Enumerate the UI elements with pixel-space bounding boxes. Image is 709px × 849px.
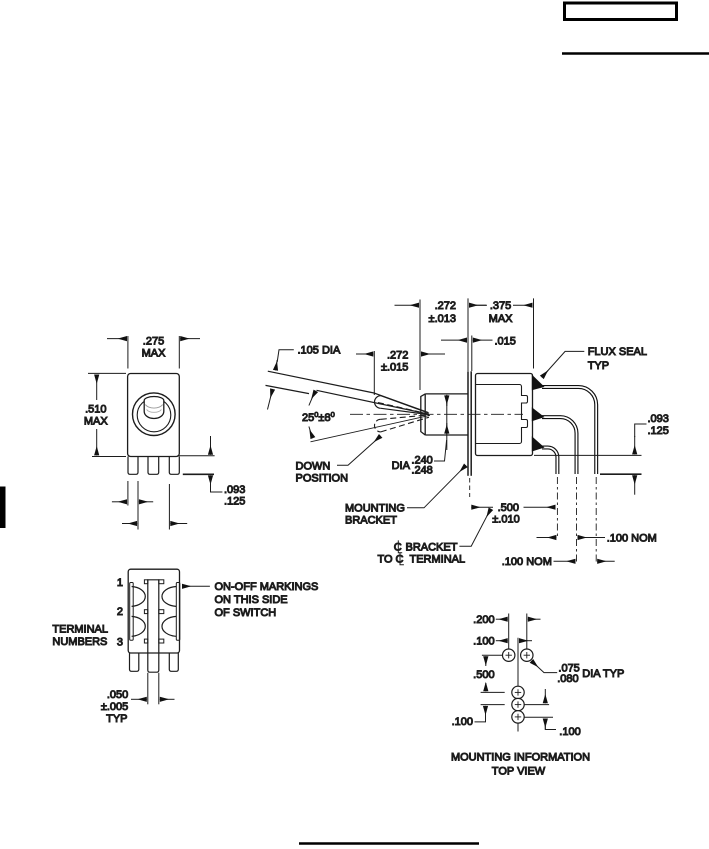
svg-text:TO: TO [378, 554, 394, 566]
down position bat cap (dashed) [374, 419, 380, 432]
svg-text:.375: .375 [490, 300, 511, 312]
svg-text:DIA: DIA [392, 460, 411, 472]
title block rectangle (empty, top right) [565, 3, 677, 20]
short bat edges [381, 396, 429, 414]
svg-text:.050: .050 [107, 689, 128, 701]
svg-text:±.015: ±.015 [381, 361, 408, 373]
mounting hole C [512, 686, 524, 698]
svg-text:ON THIS SIDE: ON THIS SIDE [215, 594, 288, 606]
svg-text:TOP VIEW: TOP VIEW [492, 766, 546, 778]
terminal row 2 tabs [144, 610, 147, 614]
footer rule (bottom center) [299, 842, 479, 845]
svg-text:.100: .100 [473, 636, 494, 648]
dim .510 MAX extension lines [88, 372, 126, 374]
svg-text:.093: .093 [224, 484, 245, 496]
bushing (side view) [421, 394, 425, 435]
front view right: body bottom extension [177, 455, 214, 457]
dim .050 extension lines [147, 673, 149, 705]
mounting hole A [503, 649, 515, 661]
header rule (top right) [562, 52, 709, 55]
svg-text:OF SWITCH: OF SWITCH [215, 607, 277, 619]
binding mark (left edge black bar) [0, 487, 6, 529]
svg-text:1: 1 [117, 577, 123, 589]
label ON-OFF MARKINGS with leader [182, 585, 210, 587]
svg-text:2: 2 [117, 606, 123, 618]
dim .500 extension lines [482, 654, 502, 656]
dim .100 (bottom right D-E) extension lines [524, 704, 549, 706]
svg-text:.100 NOM: .100 NOM [502, 556, 552, 568]
dim .272 +-.015 arrows [356, 353, 373, 355]
wire bottom extension line (right) [600, 473, 642, 475]
mounting hole E [512, 711, 524, 723]
hole A extension line [508, 614, 510, 651]
terminal leg 1 (front view) [128, 457, 138, 475]
svg-text:.272: .272 [387, 349, 408, 361]
leg spacing arrows (lower pair) [122, 523, 137, 525]
rear leg 3 [169, 653, 178, 671]
body bottom extension line (right) [534, 454, 642, 456]
right side wall strip [176, 583, 180, 641]
svg-text:.080: .080 [557, 673, 578, 685]
dim .100 (bottom left C-D) extension line [481, 704, 505, 706]
svg-text:BRACKET: BRACKET [406, 542, 458, 554]
switch body front outline [128, 374, 180, 457]
contact dome top-right [162, 587, 176, 607]
svg-text:MAX: MAX [142, 348, 167, 360]
svg-text:±.005: ±.005 [101, 701, 128, 713]
central actuator strip [148, 580, 159, 672]
svg-text:.248: .248 [411, 465, 432, 477]
svg-text:MAX: MAX [84, 415, 109, 427]
flux seal 3 (solid) [532, 436, 545, 451]
svg-text:DOWN: DOWN [296, 460, 331, 472]
svg-text:.500: .500 [498, 502, 519, 514]
svg-text:.100: .100 [452, 716, 473, 728]
dim .015 arrows and text [441, 339, 467, 341]
svg-text:TERMINAL: TERMINAL [52, 623, 108, 635]
svg-text:.272: .272 [435, 300, 456, 312]
svg-text:.500: .500 [473, 669, 494, 681]
svg-text:ON-OFF MARKINGS: ON-OFF MARKINGS [215, 581, 319, 593]
svg-text:TYP: TYP [588, 360, 609, 372]
hole B extension line [526, 614, 528, 651]
flux seal 1 (solid) [532, 375, 545, 391]
terminal leg 2 (front view) [148, 457, 159, 475]
mounting bracket (side view) [467, 371, 469, 476]
angle arc 25 deg upper segment with arrow [309, 391, 316, 406]
terminal leg 3 (front view) [169, 457, 179, 475]
bushing inner circle [137, 398, 171, 432]
contact dome top-left [132, 587, 146, 607]
svg-text:.200: .200 [473, 614, 494, 626]
svg-text:.015: .015 [495, 335, 516, 347]
terminal row 3 tabs [144, 639, 147, 643]
bushing DIA dimension line [446, 395, 448, 450]
toggle bat tip (end view) [144, 397, 164, 419]
left side wall strip [130, 583, 134, 641]
svg-text:BRACKET: BRACKET [345, 515, 397, 527]
dim .100 NOM (terminals 3 to 2) [537, 537, 557, 539]
hidden lever line inside bushing (dashed) [378, 403, 426, 414]
terminal 1 wire (outermost) [542, 387, 596, 474]
dim .500 +-.010 line and arrows [471, 506, 493, 508]
side view top dimension extension lines [419, 300, 421, 391]
leg width arrows (upper pair) [112, 501, 127, 503]
svg-text:TYP: TYP [106, 713, 127, 725]
terminal row 1 tabs [144, 580, 147, 584]
svg-text:DIA TYP: DIA TYP [582, 668, 624, 680]
switch body (side view) outline [476, 374, 533, 456]
svg-text:.100: .100 [559, 726, 580, 738]
rear body outline [128, 569, 179, 653]
leg dimension extension lines below [127, 481, 129, 506]
svg-text:TERMINAL: TERMINAL [410, 554, 466, 566]
contact dome bottom-right [162, 616, 176, 636]
svg-text:.125: .125 [224, 496, 245, 508]
angle dimension edge line (down position) [311, 415, 431, 442]
lever up position upper edge [268, 371, 428, 412]
contact dome bottom-left [132, 616, 146, 636]
svg-text:±.013: ±.013 [429, 313, 456, 325]
svg-text:±.010: ±.010 [492, 514, 519, 526]
CL label leader to .500 dimension [459, 510, 490, 546]
label .075/.080 DIA TYP with leader [532, 662, 557, 673]
mounting hole B [521, 649, 533, 661]
svg-text:.510: .510 [85, 403, 106, 415]
svg-text:.100 NOM: .100 NOM [607, 532, 657, 544]
svg-text:3: 3 [117, 637, 123, 649]
svg-text:.275: .275 [143, 336, 164, 348]
dim .500 line with arrows [485, 656, 487, 666]
dim .100 bottom right arrows and elbow [544, 689, 546, 703]
vertical centerline through holes C D E [517, 638, 519, 732]
up arrow to leg bottom with leader to .093/.125 [210, 475, 212, 483]
svg-text:.125: .125 [648, 425, 669, 437]
dim .050 arrows [131, 698, 147, 700]
svg-text:MOUNTING INFORMATION: MOUNTING INFORMATION [451, 752, 590, 764]
svg-text:POSITION: POSITION [296, 472, 349, 484]
body inner profile with terminal notches [476, 385, 528, 444]
dashed centerline below bracket [469, 478, 471, 497]
short bat end cap [375, 396, 381, 409]
svg-text:MAX: MAX [489, 313, 514, 325]
dim .100 bottom left arrow and elbow [485, 706, 487, 720]
dim .275 MAX extension lines [127, 336, 129, 369]
lever up position lower edge [266, 385, 429, 414]
svg-text:FLUX SEAL: FLUX SEAL [588, 346, 647, 358]
svg-text:.105 DIA: .105 DIA [298, 345, 341, 357]
terminal 3 wire (innermost) [542, 448, 557, 475]
dashed centerlines below terminals [556, 477, 558, 536]
terminal 2 wire (middle) [542, 417, 577, 474]
rear leg 1 [130, 653, 139, 671]
dim .375 MAX line and arrows [469, 304, 487, 306]
down arrow to body bottom [210, 436, 212, 455]
angle arc 25 deg lower segment with arrow [309, 427, 313, 439]
svg-text:.093: .093 [648, 413, 669, 425]
svg-text:MOUNTING: MOUNTING [345, 503, 405, 515]
dim .510 MAX dimension line with arrows [96, 375, 98, 401]
mounting hole D [512, 698, 524, 710]
flux seal 2 (solid) [532, 407, 545, 421]
svg-text:250±80: 250±80 [302, 410, 335, 424]
front view right: leg bottom extension [183, 473, 214, 475]
svg-text:NUMBERS: NUMBERS [52, 636, 107, 648]
dim .275 MAX arrows [107, 338, 127, 340]
dim .272 +-.013 arrows [395, 304, 420, 306]
down position bat edges (dashed) [381, 415, 429, 419]
bushing outer circle [133, 393, 176, 436]
horizontal centerline through bushing/body [350, 413, 523, 415]
dim .093/.125 (side view right) [635, 424, 647, 437]
